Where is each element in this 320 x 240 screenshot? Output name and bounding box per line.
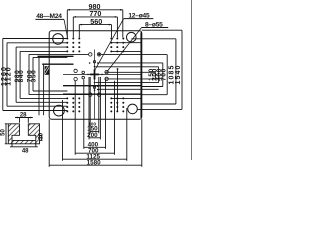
svg-text:560: 560 [90, 17, 102, 26]
svg-text:20: 20 [39, 132, 45, 139]
svg-text:28: 28 [20, 113, 27, 119]
svg-text:840: 840 [18, 70, 25, 83]
svg-text:350: 350 [31, 70, 38, 83]
svg-text:1580: 1580 [87, 159, 102, 166]
svg-text:1540: 1540 [175, 65, 182, 85]
svg-text:50: 50 [1, 129, 7, 136]
svg-text:100: 100 [88, 121, 96, 126]
svg-text:1120: 1120 [6, 66, 13, 86]
svg-text:48: 48 [22, 149, 29, 155]
svg-text:700: 700 [160, 68, 167, 81]
